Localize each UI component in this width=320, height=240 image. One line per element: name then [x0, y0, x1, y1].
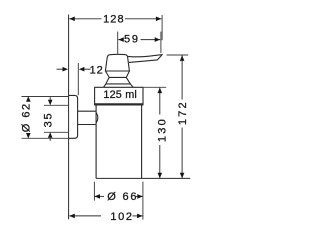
svg-text:35: 35	[43, 112, 55, 128]
svg-text:130: 130	[156, 117, 168, 142]
svg-text:125 ml: 125 ml	[103, 89, 137, 101]
svg-text:Ø 62: Ø 62	[21, 102, 33, 132]
svg-text:128: 128	[103, 14, 125, 26]
svg-text:Ø 66: Ø 66	[107, 191, 138, 203]
svg-text:59: 59	[124, 34, 140, 46]
svg-text:172: 172	[177, 100, 189, 125]
svg-text:12: 12	[90, 65, 104, 77]
svg-text:102: 102	[110, 211, 133, 223]
